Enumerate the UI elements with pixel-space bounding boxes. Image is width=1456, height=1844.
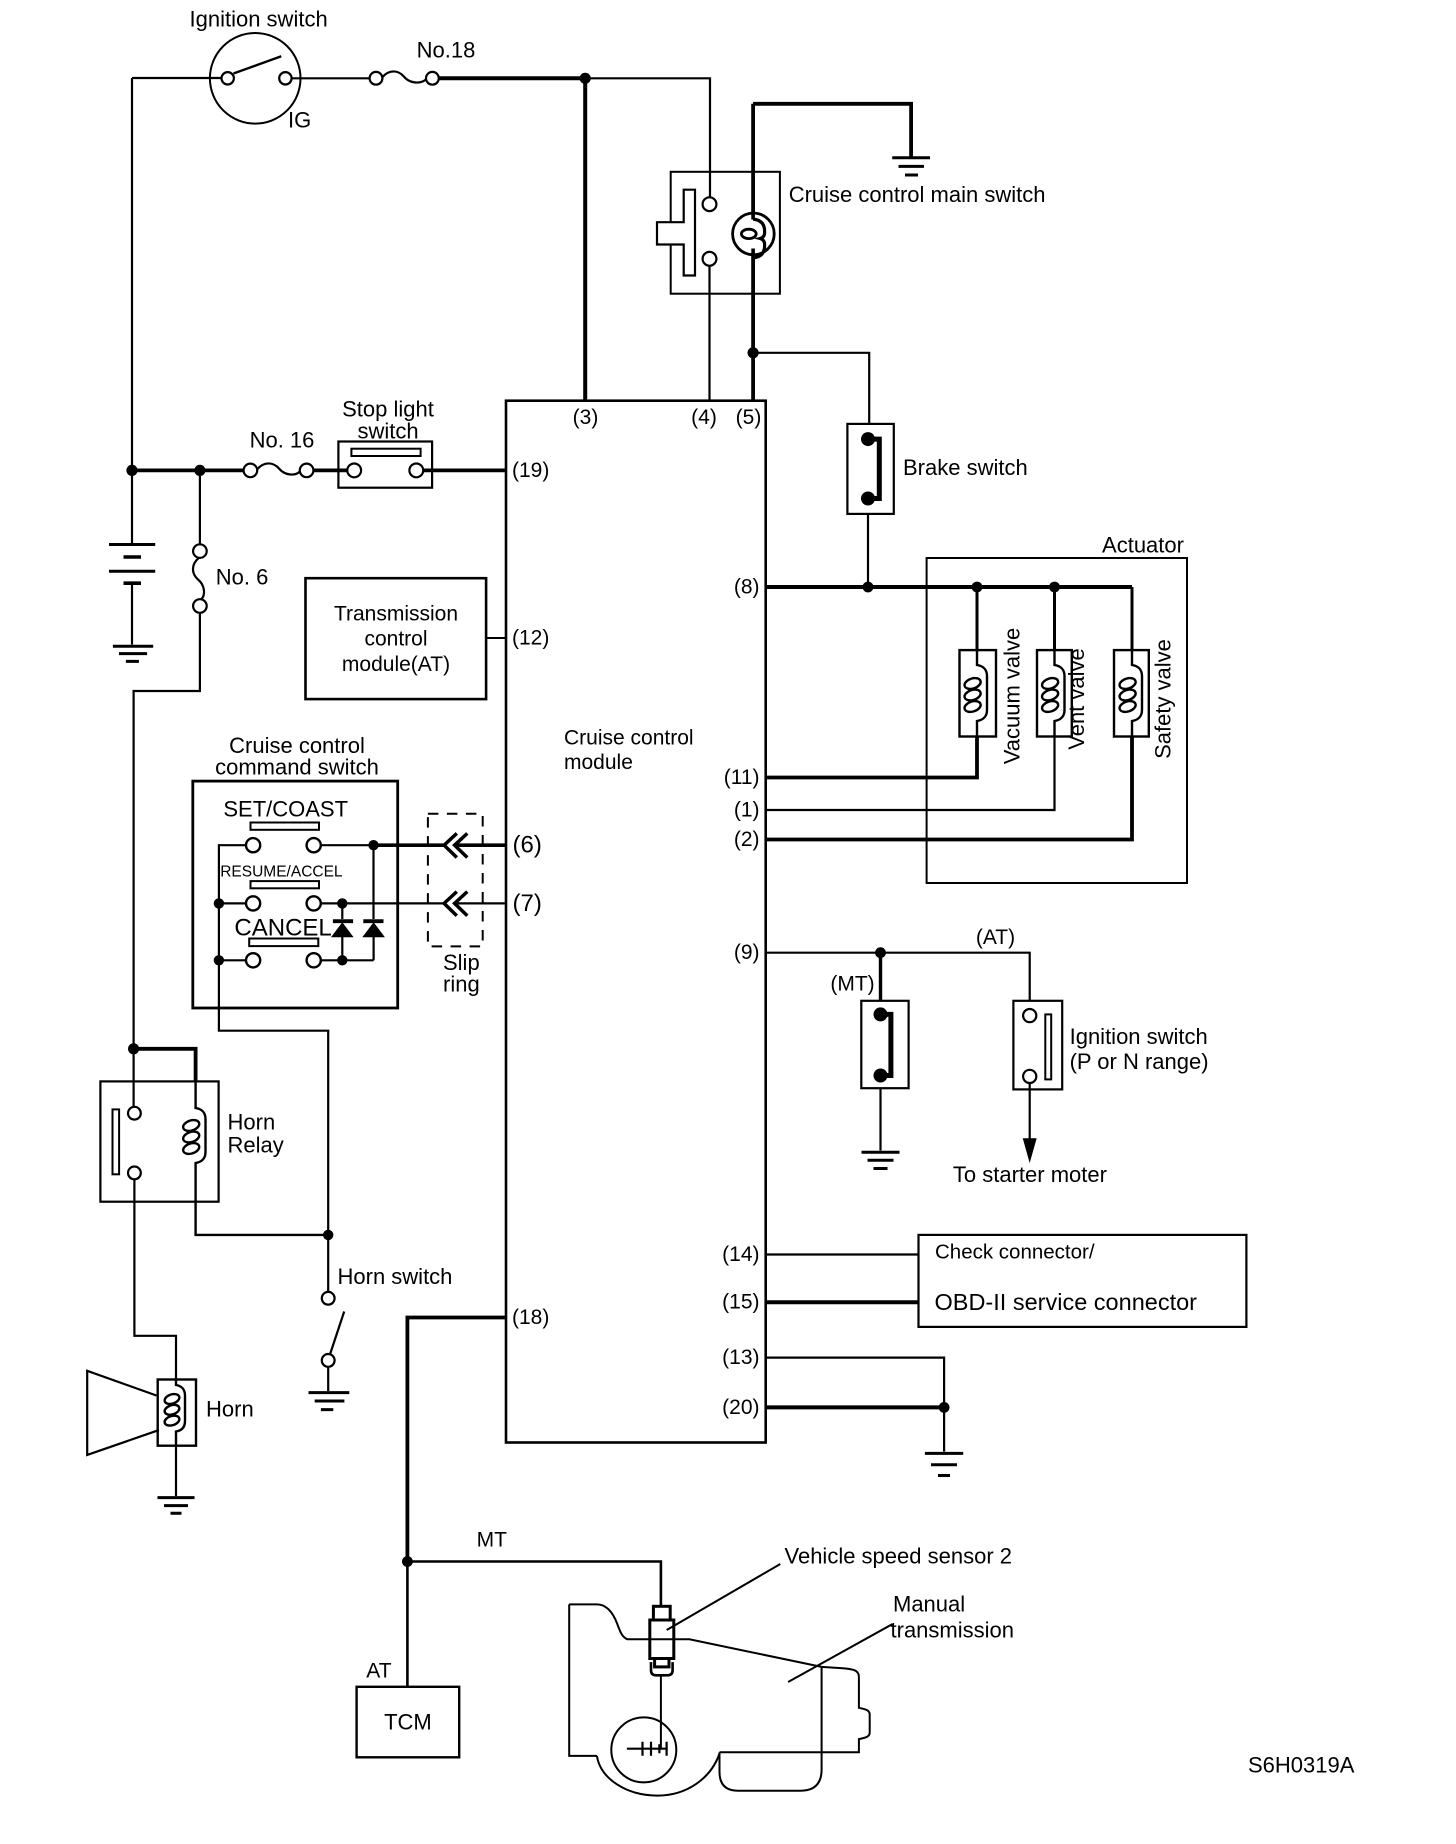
svg-text:Vent valve: Vent valve	[1064, 648, 1089, 750]
junction node pin5/brake	[748, 347, 759, 358]
wire: pin 8 bus (thick)	[766, 585, 1132, 589]
P/N switch bar	[1045, 1014, 1051, 1079]
svg-text:(4): (4)	[691, 406, 717, 429]
wire: relay contact to horn	[134, 1179, 176, 1379]
ground (battery)	[113, 646, 153, 661]
indicator lamp in main switch	[733, 213, 775, 255]
svg-text:(6): (6)	[513, 832, 542, 859]
ignition switch (P or N range) box	[1013, 1001, 1062, 1090]
safety valve coil	[1132, 650, 1142, 736]
junction node B (fuse No.6 tap)	[194, 465, 205, 476]
pointer line: vehicle speed sensor 2	[667, 1564, 781, 1630]
wire: horn switch to ground	[327, 1367, 329, 1391]
wire: fuse No.16 to stop light switch (thick)	[313, 468, 347, 472]
wire: node A down to battery	[131, 470, 133, 543]
brake switch contacts (closed)	[861, 432, 875, 446]
wire: ignition switch right terminal to fuse No.18	[292, 77, 370, 79]
wire: pin 9 to AT branch	[766, 953, 1030, 1001]
svg-text:IG: IG	[288, 108, 311, 133]
wire: node down to horn switch	[327, 1235, 329, 1292]
ground (cruise main switch)	[892, 158, 930, 175]
wire: left feed vertical from ignition switch down to node A	[131, 78, 133, 470]
slip ring chevrons pin 7	[444, 892, 467, 916]
horn relay box	[100, 1081, 218, 1201]
svg-text:ring: ring	[443, 971, 480, 996]
vacuum valve coil	[977, 650, 987, 736]
svg-text:To starter moter: To starter moter	[953, 1162, 1107, 1187]
actuator box	[927, 558, 1187, 883]
wire: vent valve to module pin 1	[766, 737, 1055, 811]
SEC_STOPLIGHT	[109, 470, 207, 1048]
svg-text:Horn: Horn	[228, 1110, 276, 1135]
svg-text:(1): (1)	[734, 799, 760, 822]
svg-text:(AT): (AT)	[976, 926, 1015, 949]
fuse No.18	[370, 72, 383, 85]
cruise control command switch box	[193, 781, 398, 1008]
svg-text:Manual: Manual	[893, 1592, 965, 1617]
wire: AT branch down to TCM	[406, 1562, 409, 1687]
svg-text:module(AT): module(AT)	[342, 653, 450, 676]
svg-text:(11): (11)	[724, 766, 760, 789]
svg-text:Check connector/: Check connector/	[935, 1241, 1095, 1264]
wire: top horizontal to ignition switch left terminal	[132, 77, 222, 79]
junction node A	[126, 465, 137, 476]
ground (horn)	[158, 1498, 195, 1514]
horn relay contacts	[128, 1107, 141, 1120]
junction node MT/AT split	[402, 1556, 413, 1567]
svg-text:transmission: transmission	[891, 1618, 1014, 1643]
wire: horn to ground	[175, 1446, 177, 1496]
P/N switch contacts	[1023, 1009, 1036, 1022]
svg-text:Ignition switch: Ignition switch	[190, 7, 328, 32]
wire: safety valve to module pin 2 (thick)	[766, 737, 1132, 840]
wire: stop light switch to module pin 19 (thick)	[423, 468, 506, 472]
RESUME/ACCEL key bar	[251, 881, 320, 888]
cruise control main switch box	[671, 172, 780, 294]
main switch contact bottom	[703, 252, 717, 266]
wire: relay coil to horn switch node	[196, 1202, 329, 1235]
ground (horn switch)	[309, 1393, 350, 1410]
wire: pin 15 to check connector (thick)	[766, 1300, 919, 1304]
wire: slip ring to module pin 6 (thick)	[455, 843, 507, 847]
main switch push-knob (T symbol)	[657, 190, 695, 276]
svg-text:(13): (13)	[722, 1346, 759, 1369]
wire: drop to vent valve	[1053, 587, 1056, 650]
wire: pin 6 (thick) to slip ring	[374, 843, 445, 847]
transmission control module (AT) box	[306, 578, 487, 699]
wire: SET/COAST to node, row1	[321, 844, 374, 846]
svg-text:(9): (9)	[734, 941, 760, 964]
wire: to ground	[943, 1407, 945, 1451]
wire: fuse No.6 down, jog left, long drop to horn relay node	[134, 613, 200, 1049]
safety valve solenoid box	[1114, 650, 1149, 736]
wire: sensor to transmission input	[660, 1675, 662, 1748]
manual transmission outline	[569, 1604, 859, 1677]
SEC_CHECK	[357, 1318, 893, 1796]
horn speaker cone	[87, 1371, 159, 1455]
MT switch contacts (closed)	[874, 1007, 888, 1021]
stop light switch contacts	[347, 464, 361, 478]
SEC_MODULE	[193, 781, 506, 1235]
svg-text:(19): (19)	[512, 459, 549, 482]
svg-text:Brake switch: Brake switch	[903, 455, 1028, 480]
svg-text:(MT): (MT)	[830, 973, 874, 996]
SEC_HORN	[766, 424, 1187, 883]
SEC_BATTERY	[306, 578, 507, 699]
svg-text:AT: AT	[366, 1660, 391, 1683]
stop light switch box	[338, 442, 432, 488]
vent valve coil	[1055, 650, 1065, 736]
main switch contact top (pin 4)	[703, 197, 717, 211]
svg-text:Horn switch: Horn switch	[338, 1264, 453, 1289]
junction node row2 diode D1	[337, 898, 347, 908]
svg-text:Vacuum valve: Vacuum valve	[999, 628, 1024, 765]
svg-text:RESUME/ACCEL: RESUME/ACCEL	[220, 864, 343, 881]
junction node row2 left	[214, 898, 224, 908]
svg-text:MT: MT	[477, 1529, 507, 1552]
vent valve solenoid box	[1037, 650, 1072, 736]
junction node row1	[368, 840, 378, 850]
svg-text:(18): (18)	[512, 1306, 549, 1329]
svg-text:CANCEL: CANCEL	[234, 915, 331, 942]
wire: node B down into fuse No.6	[199, 470, 201, 544]
SET/COAST key bar	[251, 823, 320, 830]
svg-text:(15): (15)	[722, 1291, 759, 1314]
svg-text:Horn: Horn	[206, 1397, 254, 1422]
wire: pin 20 (thick)	[766, 1405, 944, 1409]
CANCEL key bar	[249, 939, 318, 947]
wire: MT branch to speed sensor	[407, 1562, 661, 1607]
svg-text:(P or N range): (P or N range)	[1070, 1049, 1209, 1074]
SEC_MAINSWITCH	[126, 442, 506, 488]
junction node horn switch	[323, 1230, 333, 1240]
fuse No. 6 (vertical)	[193, 544, 207, 558]
SET/COAST contacts	[246, 838, 260, 852]
wire: node (3) vertical down to module pin 3 (thick)	[583, 78, 587, 400]
fuse No. 16	[244, 464, 258, 478]
wire: pin 18 out and down (thick)	[407, 1318, 506, 1562]
svg-text:command switch: command switch	[215, 754, 379, 779]
wire: row2 left to common rail	[219, 902, 246, 904]
svg-text:(7): (7)	[513, 890, 542, 917]
RESUME/ACCEL contacts	[246, 896, 260, 910]
wire: contact bottom down to module pin 4	[708, 266, 710, 401]
svg-text:(2): (2)	[734, 828, 760, 851]
wire: junction to cruise main switch contact (4)	[585, 78, 710, 197]
wire: lamp vertical through main switch (thick)	[751, 104, 755, 401]
svg-text:Transmission: Transmission	[334, 603, 458, 626]
svg-text:SET/COAST: SET/COAST	[223, 797, 348, 822]
wire: battery negative to ground	[131, 583, 133, 644]
svg-text:No.18: No.18	[417, 38, 476, 63]
junction node horn relay feed	[128, 1043, 139, 1054]
svg-text:Cruise control: Cruise control	[564, 727, 694, 750]
wire: row3 left to common rail	[219, 959, 246, 961]
cruise control module U1	[506, 401, 766, 1443]
svg-text:Vehicle speed sensor 2: Vehicle speed sensor 2	[785, 1544, 1013, 1569]
junction node pin13/20	[939, 1402, 950, 1413]
wire: node below main switch to brake switch	[753, 353, 869, 424]
wire: slip ring to module pin 7	[455, 902, 507, 904]
pointer line: manual transmission	[788, 1624, 893, 1682]
SEC_RIGHTMID	[766, 1235, 1247, 1476]
wire: drop to vacuum valve	[976, 587, 979, 650]
wire: brake switch to pin 8 bus	[867, 514, 869, 587]
wire: node down into relay contact	[133, 1049, 135, 1107]
svg-text:S6H0319A: S6H0319A	[1248, 1753, 1355, 1778]
svg-text:module: module	[564, 751, 633, 774]
ground (module pins 13/20)	[925, 1453, 963, 1475]
wire: fuse No.18 to node (3) junction (thick)	[439, 76, 585, 80]
diode D2 (right)	[372, 845, 374, 919]
svg-text:Ignition switch: Ignition switch	[1070, 1024, 1208, 1049]
vacuum valve solenoid box	[960, 650, 997, 736]
junction node row3 left	[214, 955, 224, 965]
wire: row3 right to diodes	[321, 959, 374, 961]
wire: P/N switch to starter arrow	[1029, 1083, 1031, 1140]
svg-text:Safety valve: Safety valve	[1151, 639, 1176, 759]
junction node at (3)	[580, 73, 591, 84]
ground (MT switch)	[862, 1152, 900, 1168]
vehicle speed sensor 2	[653, 1606, 670, 1620]
svg-text:Relay: Relay	[228, 1133, 284, 1158]
junction nodes on pin 8 bus	[863, 582, 874, 593]
svg-text:(12): (12)	[512, 627, 549, 650]
wire: MT branch down	[879, 953, 882, 1001]
stop light switch bar	[351, 449, 420, 456]
wire: vacuum valve to module pin 11 (thick)	[766, 737, 977, 778]
wire: MT switch to ground	[879, 1088, 881, 1150]
SEC_COMMAND	[87, 1043, 349, 1513]
wire: TCM(AT) to module pin 12	[486, 637, 506, 639]
wire: node A to fuse No.16 (thick)	[132, 468, 244, 472]
brake switch box	[847, 424, 893, 514]
svg-text:(5): (5)	[736, 406, 762, 429]
wire: pin 14 to check connector	[766, 1253, 919, 1255]
svg-text:(14): (14)	[722, 1243, 759, 1266]
svg-text:(20): (20)	[722, 1396, 759, 1419]
svg-text:control: control	[364, 628, 427, 651]
check connector / OBD-II box	[919, 1235, 1247, 1327]
horn switch	[322, 1292, 335, 1305]
wire: pin 13	[766, 1358, 944, 1408]
TCM box	[357, 1687, 460, 1758]
ignition switch IG (rotary contact)	[210, 33, 301, 124]
svg-text:No. 16: No. 16	[250, 428, 315, 453]
wire: drop to safety valve	[1131, 587, 1134, 650]
slip ring chevrons pin 6	[444, 833, 467, 857]
slip ring (dashed)	[428, 814, 483, 947]
svg-text:Actuator: Actuator	[1102, 533, 1184, 558]
wire: row2 right to diode node	[321, 902, 444, 904]
svg-text:TCM: TCM	[384, 1710, 432, 1735]
SEC_TOPLEFT	[657, 104, 930, 424]
horn relay coil	[196, 1081, 206, 1201]
horn coil box	[158, 1380, 196, 1446]
clutch circle in transmission	[611, 1717, 676, 1782]
svg-text:OBD-II service connector: OBD-II service connector	[935, 1289, 1198, 1315]
wire: lamp feed top, over to ground (thick)	[753, 104, 911, 158]
svg-text:(8): (8)	[734, 576, 760, 599]
wire: common rail left vertical	[219, 845, 328, 1235]
battery	[109, 543, 155, 546]
svg-text:Cruise control main switch: Cruise control main switch	[789, 182, 1046, 207]
wire: node to horn relay coil (thick)	[134, 1049, 196, 1082]
svg-text:switch: switch	[357, 419, 418, 444]
inhibitor switch (MT) box	[861, 1001, 908, 1088]
diode D1 (left)	[341, 903, 343, 919]
junction node row3 diode	[337, 955, 347, 965]
horn relay contact bar	[113, 1109, 120, 1174]
svg-text:(3): (3)	[573, 406, 599, 429]
SEC_ACTUATOR	[766, 947, 1063, 1168]
arrow to starter motor	[1023, 1139, 1036, 1161]
CANCEL contacts	[246, 953, 260, 967]
horn coil	[176, 1380, 185, 1446]
junction node MT branch	[875, 947, 886, 958]
svg-text:No. 6: No. 6	[216, 565, 269, 590]
